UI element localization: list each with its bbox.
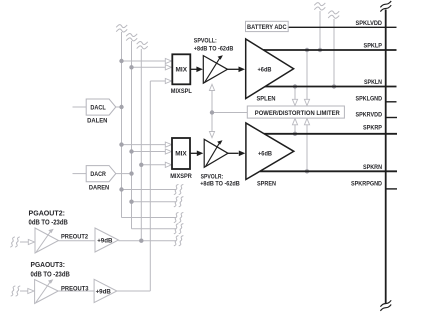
svg-text:SPKRN: SPKRN (363, 164, 382, 171)
svg-text:DACL: DACL (90, 105, 106, 112)
svg-text:MIXSPR: MIXSPR (170, 173, 192, 180)
svg-text:0dB TO -23dB: 0dB TO -23dB (29, 219, 68, 226)
svg-text:+9dB: +9dB (96, 289, 112, 296)
svg-text:0dB TO -23dB: 0dB TO -23dB (31, 271, 70, 278)
svg-text:SPKLGND: SPKLGND (356, 95, 383, 102)
svg-text:SPKRPGND: SPKRPGND (351, 181, 382, 188)
svg-text:SPKLVDD: SPKLVDD (356, 20, 383, 27)
svg-text:+8dB TO -62dB: +8dB TO -62dB (200, 181, 240, 188)
svg-text:+6dB: +6dB (258, 150, 272, 157)
svg-text:PGAOUT3:: PGAOUT3: (31, 262, 66, 269)
svg-text:SPKLN: SPKLN (364, 79, 382, 86)
svg-text:SPVOLL:: SPVOLL: (194, 37, 217, 44)
svg-text:PREOUT3: PREOUT3 (61, 286, 89, 293)
svg-text:POWER/DISTORTION LIMITER: POWER/DISTORTION LIMITER (255, 110, 340, 117)
svg-text:DALEN: DALEN (87, 118, 108, 125)
svg-text:+6dB: +6dB (258, 66, 272, 73)
svg-text:MIX: MIX (175, 151, 187, 158)
svg-text:PGAOUT2:: PGAOUT2: (29, 210, 66, 217)
svg-text:SPREN: SPREN (257, 180, 276, 187)
svg-text:+9dB: +9dB (97, 238, 113, 245)
svg-text:MIXSPL: MIXSPL (171, 88, 192, 95)
svg-text:SPLEN: SPLEN (257, 95, 276, 102)
svg-text:SPKRVDD: SPKRVDD (356, 112, 383, 119)
svg-text:DACR: DACR (90, 171, 106, 178)
svg-text:PREOUT2: PREOUT2 (61, 233, 88, 240)
svg-text:SPVOLR:: SPVOLR: (201, 174, 224, 181)
svg-text:+8dB TO -62dB: +8dB TO -62dB (194, 45, 234, 52)
svg-text:BATTERY ADC: BATTERY ADC (247, 24, 287, 31)
svg-text:DAREN: DAREN (89, 184, 110, 191)
svg-text:MIX: MIX (176, 67, 188, 74)
svg-text:SPKLP: SPKLP (364, 43, 383, 50)
svg-text:SPKRP: SPKRP (363, 124, 383, 131)
